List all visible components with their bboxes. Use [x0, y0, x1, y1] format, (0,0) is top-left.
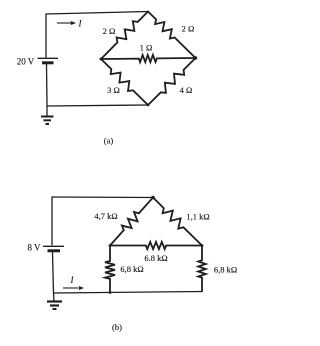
- resistor R1 2 ohm (a, top-left arm): [101, 12, 148, 60]
- node: left vertex of bridge (a): [100, 58, 103, 61]
- svg-text:1,1 kΩ: 1,1 kΩ: [186, 212, 209, 222]
- label 20 V: [17, 57, 35, 67]
- node: junction of left branch with bottom wire (b): [109, 291, 112, 294]
- svg-text:6,8 kΩ: 6,8 kΩ: [120, 264, 143, 274]
- label 3 ohm: [107, 85, 120, 95]
- svg-text:8 V: 8 V: [27, 243, 41, 253]
- svg-text:20 V: 20 V: [17, 57, 35, 67]
- svg-text:6,8 kΩ: 6,8 kΩ: [214, 265, 237, 275]
- svg-text:1 Ω: 1 Ω: [140, 43, 153, 53]
- wire: bottom wire of circuit (a): [47, 105, 148, 106]
- resistor R9 6.8 kohm (b, left vertical): [105, 246, 115, 293]
- svg-text:2 Ω: 2 Ω: [103, 26, 116, 36]
- label 2 ohm (top-right): [182, 24, 195, 34]
- resistor R6 4.7 kohm (b, left slope): [110, 198, 153, 246]
- resistor R8 6.8 kohm (b, middle horizontal): [110, 242, 202, 249]
- wire: top wire of circuit (a) from battery to bridge apex: [46, 12, 148, 15]
- svg-text:4 Ω: 4 Ω: [180, 85, 193, 95]
- label 4,7 kohm: [94, 211, 117, 221]
- resistor R10 6.8 kohm (b, right vertical): [198, 246, 206, 292]
- label I (a): [78, 19, 83, 29]
- node: bottom vertex of bridge (a): [147, 104, 150, 107]
- label 1,1 kohm: [186, 212, 209, 222]
- wire: bottom wire of circuit (b): [54, 292, 202, 294]
- wire: top wire of circuit (b): [52, 196, 153, 199]
- label 8 V: [27, 243, 41, 253]
- caption (b): [112, 322, 122, 332]
- svg-text:3 Ω: 3 Ω: [107, 85, 120, 95]
- resistor R5 4 ohm (a, bottom-right arm): [148, 58, 196, 105]
- label I (b): [70, 275, 75, 285]
- ground symbol (a): [41, 106, 54, 124]
- current arrow I (b): [63, 286, 84, 290]
- battery V2 8 V (b): [43, 197, 64, 294]
- node: right vertex of bridge (a): [194, 56, 197, 59]
- current arrow I (a): [57, 21, 76, 25]
- caption (a): [104, 136, 114, 146]
- svg-text:4,7 kΩ: 4,7 kΩ: [94, 211, 117, 221]
- node: apex of circuit (b): [151, 196, 155, 200]
- label 6.8 kohm (middle): [144, 253, 167, 263]
- resistor R3 1 ohm (a, bridge middle): [101, 55, 196, 62]
- ground symbol (b): [47, 293, 62, 309]
- battery V1 20 V (a): [38, 14, 59, 107]
- label 6,8 kohm (right): [214, 265, 237, 275]
- resistor R7 1.1 kohm (b, right slope): [153, 198, 202, 246]
- node: left node of circuit (b): [109, 244, 112, 247]
- svg-text:(a): (a): [104, 136, 114, 146]
- node: right node of circuit (b): [201, 244, 204, 247]
- label 4 ohm: [180, 85, 193, 95]
- resistor R2 2 ohm (a, top-right arm): [148, 12, 196, 59]
- label 6,8 kohm (left): [120, 264, 143, 274]
- label 2 ohm (top-left): [103, 26, 116, 36]
- svg-text:6.8 kΩ: 6.8 kΩ: [144, 253, 167, 263]
- label 1 ohm: [140, 43, 153, 53]
- resistor R4 3 ohm (a, bottom-left arm): [101, 59, 148, 105]
- svg-text:(b): (b): [112, 322, 122, 332]
- svg-text:2 Ω: 2 Ω: [182, 24, 195, 34]
